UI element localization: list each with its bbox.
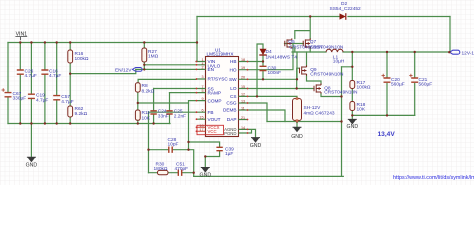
wire D4 anode loop xyxy=(257,44,263,96)
wire Q9 source rail xyxy=(321,94,342,97)
svg-text:1MΩ: 1MΩ xyxy=(148,54,159,60)
capacitor C26 xyxy=(17,70,24,74)
wire C24 branch xyxy=(153,89,155,124)
junction dot C39 gnd xyxy=(204,155,206,157)
svg-text:8.2kΩ: 8.2kΩ xyxy=(142,89,155,95)
svg-text:R11: R11 xyxy=(142,110,151,116)
wire SS run xyxy=(154,88,196,90)
ground GND2 xyxy=(201,168,210,172)
wire divider tap to EN port xyxy=(70,69,136,73)
wire R27 leads xyxy=(143,43,145,70)
wire SW sense column xyxy=(342,52,353,81)
svg-text:LM5119MHX: LM5119MHX xyxy=(207,52,235,57)
capacitor C24 xyxy=(150,111,156,114)
junction dot shunt bottom xyxy=(296,120,298,122)
ground GND1 xyxy=(27,157,36,161)
wire SW riser xyxy=(296,52,298,79)
wire R8 R11 column xyxy=(137,92,139,123)
svg-text:SW: SW xyxy=(229,77,237,82)
wire VIN riser to pin xyxy=(196,17,197,62)
port EN/12V xyxy=(132,68,142,72)
svg-text:Q7: Q7 xyxy=(310,39,317,45)
svg-text:GND: GND xyxy=(347,124,359,130)
svg-text:EN: EN xyxy=(208,67,215,72)
transistor Q7 xyxy=(303,38,310,48)
wire output cap neg rail xyxy=(352,114,414,116)
svg-text:VCC: VCC xyxy=(208,129,217,134)
wire high side drain drop xyxy=(295,17,310,39)
svg-text:EN/12V: EN/12V xyxy=(115,68,132,74)
svg-text:14: 14 xyxy=(241,126,245,130)
capacitor C21 polarized xyxy=(409,74,418,82)
svg-text:GND: GND xyxy=(291,134,303,140)
junction dot Q6 gate xyxy=(296,87,298,89)
svg-text:RAMP: RAMP xyxy=(208,91,222,96)
wire C30 leads xyxy=(262,62,264,80)
svg-text:CRST049N10N: CRST049N10N xyxy=(310,44,344,50)
wire gate rail high side xyxy=(285,43,304,45)
svg-text:12: 12 xyxy=(241,93,245,97)
junction dot COMP C39 xyxy=(187,141,189,143)
svg-text:11: 11 xyxy=(241,106,245,110)
svg-text:SH-12V: SH-12V xyxy=(304,105,322,111)
wire SW run xyxy=(248,78,297,80)
svg-text:2: 2 xyxy=(201,66,203,70)
junction dot C30 SW xyxy=(262,78,264,80)
wire RAMP run xyxy=(170,92,197,94)
svg-text:18: 18 xyxy=(241,58,245,62)
capacitor C67 polarized xyxy=(2,88,12,97)
resistor R18 xyxy=(350,102,355,111)
svg-text:DEMB: DEMB xyxy=(223,108,237,113)
wire top bus left of D2 xyxy=(197,16,339,18)
ground GND4 xyxy=(293,127,302,131)
wire R18 to GND5 xyxy=(351,111,353,120)
wire UVLO run xyxy=(144,64,196,66)
wire ground column xyxy=(341,67,343,177)
wire CSG run xyxy=(248,103,267,122)
wire comp to C39 xyxy=(189,142,220,147)
svg-text:3: 3 xyxy=(201,75,203,79)
wire CS run xyxy=(248,96,297,98)
junction dots VIN bus xyxy=(19,41,21,43)
diode D4 xyxy=(259,49,266,55)
transistor Q5 xyxy=(285,38,292,48)
svg-text:100kΩ: 100kΩ xyxy=(75,56,89,62)
wire shunt to GND4 xyxy=(296,121,298,127)
wire Q6 drain xyxy=(306,52,308,67)
wire C39 bottom xyxy=(205,151,219,167)
svg-text:4.7µF: 4.7µF xyxy=(49,73,61,79)
svg-text:20: 20 xyxy=(241,76,245,80)
svg-text:SS54_C22452: SS54_C22452 xyxy=(330,6,362,12)
junction dot COMP wireA xyxy=(187,149,189,151)
wire C19 branch xyxy=(30,43,32,124)
capacitor C19 xyxy=(28,94,35,98)
junction dot SW riser xyxy=(296,78,298,80)
wire SW rail right xyxy=(343,51,449,53)
capacitor C51 xyxy=(178,170,181,176)
junction dot cap rail xyxy=(351,114,353,116)
svg-text:6: 6 xyxy=(201,109,203,113)
wire C16 branch xyxy=(44,43,46,124)
wire C67 branch xyxy=(7,43,9,124)
wire HB run xyxy=(248,61,263,63)
wire R17 R18 junction xyxy=(351,89,353,102)
wire C20 branch xyxy=(386,52,388,115)
svg-text:13,4V: 13,4V xyxy=(378,131,396,138)
svg-text:9.2kΩ: 9.2kΩ xyxy=(75,111,88,117)
capacitor C25 xyxy=(166,111,172,114)
svg-text:4.7µF: 4.7µF xyxy=(36,97,48,103)
svg-text:GND: GND xyxy=(26,163,38,169)
svg-text:100nF: 100nF xyxy=(268,70,282,76)
junction dot VIN riser xyxy=(196,41,198,43)
svg-text:19: 19 xyxy=(241,66,245,70)
port 12V-1 xyxy=(450,50,460,54)
svg-text:CS: CS xyxy=(230,94,237,99)
junction dot SW rail xyxy=(351,51,353,53)
svg-text:HO: HO xyxy=(229,67,236,72)
svg-text:4.7µF: 4.7µF xyxy=(25,73,37,79)
transistor Q6 xyxy=(300,65,307,75)
resistor R30 xyxy=(158,170,169,174)
wire C28 row xyxy=(149,150,194,177)
svg-text:FB: FB xyxy=(208,110,214,115)
capacitor C57 xyxy=(53,96,60,100)
resistor R8 xyxy=(135,83,140,92)
wire output riser xyxy=(449,17,451,53)
svg-text:GND: GND xyxy=(200,173,212,179)
resistor R11 xyxy=(135,110,140,120)
wire C25 branch xyxy=(169,93,171,124)
capacitor C20 polarized xyxy=(382,74,391,82)
wire D4 cathode xyxy=(262,55,264,62)
svg-text:https://www.ti.com/lit/ds/syml: https://www.ti.com/lit/ds/symlink/lm xyxy=(393,175,474,181)
svg-text:4mΩ C467243: 4mΩ C467243 xyxy=(304,110,335,116)
node VIN1 port tick xyxy=(15,37,27,41)
svg-text:2.2nF: 2.2nF xyxy=(174,114,186,120)
inductor L1 xyxy=(326,49,343,52)
capacitor C28 xyxy=(169,147,172,153)
svg-text:10µH: 10µH xyxy=(333,59,345,65)
svg-text:PGND: PGND xyxy=(224,131,236,136)
op-amp U1 IC body LM5119MHX xyxy=(196,57,249,137)
svg-text:D4: D4 xyxy=(266,49,272,55)
svg-text:17: 17 xyxy=(199,128,203,132)
wire RT run xyxy=(138,79,196,82)
junction dot HB node xyxy=(262,60,264,62)
wire Q5 Q7 sources xyxy=(295,47,310,52)
junction dot EN node xyxy=(143,68,145,70)
junction dot gnd col xyxy=(340,95,342,97)
svg-text:CRST049N10N: CRST049N10N xyxy=(324,90,358,96)
wire shunt bottom rail xyxy=(267,121,342,123)
wire FB run xyxy=(149,111,197,113)
svg-text:180kΩ: 180kΩ xyxy=(154,166,168,172)
capacitor C30 xyxy=(260,66,267,70)
wire R16 R62 branch xyxy=(69,43,71,124)
junction dot top bus tap xyxy=(309,15,311,17)
svg-text:CRST049N10N: CRST049N10N xyxy=(310,71,344,77)
ground GND5 xyxy=(348,119,357,123)
svg-text:470pF: 470pF xyxy=(175,166,189,172)
svg-text:15: 15 xyxy=(241,85,245,89)
wire GND1 drop xyxy=(30,124,32,158)
transistor Q9 xyxy=(314,83,321,93)
junction dot UVLO tap on R27 lead xyxy=(143,64,145,66)
junction dots lower bus xyxy=(19,122,21,124)
svg-text:GND: GND xyxy=(250,143,262,149)
svg-text:21: 21 xyxy=(241,116,245,120)
svg-text:330µF: 330µF xyxy=(13,96,27,102)
svg-text:RT/SYSC: RT/SYSC xyxy=(208,76,229,81)
svg-text:12V-1: 12V-1 xyxy=(462,50,474,56)
svg-text:33nF: 33nF xyxy=(158,114,169,120)
resistor R27 xyxy=(142,48,147,62)
svg-text:LO: LO xyxy=(230,86,237,91)
wire VIN bus xyxy=(8,42,197,44)
wire comp chain xyxy=(149,172,194,174)
wire bottom ground rail xyxy=(194,175,344,177)
svg-text:9: 9 xyxy=(201,97,203,101)
svg-text:10K: 10K xyxy=(142,116,151,122)
svg-text:COMP: COMP xyxy=(208,98,222,103)
capacitor C16 xyxy=(41,70,48,74)
wire C26 branch xyxy=(19,43,21,124)
wire FB drop xyxy=(148,112,150,173)
wire AGND PGND to GND xyxy=(248,129,256,137)
resistor R17 xyxy=(350,81,355,89)
wire C57 branch xyxy=(56,43,58,124)
capacitor C39 xyxy=(216,147,222,150)
svg-text:560µF: 560µF xyxy=(391,82,405,88)
svg-text:D2: D2 xyxy=(341,1,347,7)
svg-text:560µF: 560µF xyxy=(419,82,433,88)
ground GND3 xyxy=(251,138,260,142)
shunt SH-12V xyxy=(293,97,302,122)
svg-text:10K: 10K xyxy=(357,107,366,113)
junction dot R8 R11 mid xyxy=(137,102,139,104)
junction dot FB wireA xyxy=(147,149,149,151)
junction dot chain right xyxy=(193,172,195,174)
junction dot CS D4 xyxy=(256,95,258,97)
svg-text:VOUT: VOUT xyxy=(208,117,221,122)
svg-text:15: 15 xyxy=(199,116,203,120)
wire Q6 gate branch xyxy=(297,68,300,88)
svg-text:5: 5 xyxy=(201,89,203,93)
svg-text:VIN1: VIN1 xyxy=(16,32,28,38)
wire Q6 source to Q9 drain xyxy=(307,75,322,85)
svg-text:Q5: Q5 xyxy=(288,39,295,45)
junction dot UVLO tap xyxy=(69,73,71,75)
svg-text:HB: HB xyxy=(230,59,237,64)
wire LO run xyxy=(248,88,314,90)
svg-text:CSG: CSG xyxy=(226,101,237,106)
svg-text:1N4148WS T4: 1N4148WS T4 xyxy=(266,55,298,61)
wire EN run xyxy=(136,68,196,70)
diode D2 xyxy=(340,13,346,20)
svg-text:13: 13 xyxy=(241,99,245,103)
resistor R62 xyxy=(68,106,73,117)
wire COMP drop xyxy=(188,103,190,150)
svg-text:10pF: 10pF xyxy=(168,142,179,148)
svg-text:DAP: DAP xyxy=(227,117,237,122)
wire COMP run xyxy=(138,101,196,103)
resistor R16 xyxy=(68,50,73,63)
junction dot sense tap xyxy=(351,66,353,68)
svg-text:1µF: 1µF xyxy=(225,151,233,157)
wire HO run xyxy=(248,44,293,70)
wire top bus right of D2 xyxy=(348,16,450,18)
svg-text:4.7µF: 4.7µF xyxy=(61,99,73,105)
svg-text:R8: R8 xyxy=(142,83,148,89)
svg-text:100kΩ: 100kΩ xyxy=(357,85,371,91)
wire lower bus xyxy=(8,123,170,125)
wire SW rail left xyxy=(292,51,326,53)
wire DEMB run xyxy=(248,110,285,122)
wire C21 branch xyxy=(414,52,416,115)
